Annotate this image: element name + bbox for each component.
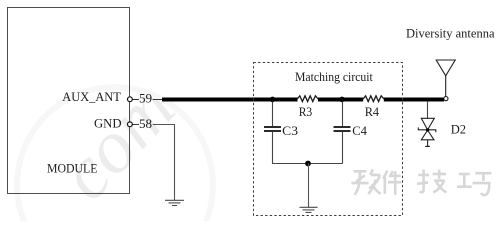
TVS diode D2 xyxy=(418,118,436,146)
wire bus to ground xyxy=(308,164,310,208)
ground symbol (matching circuit) xyxy=(300,207,318,212)
resistor R3 xyxy=(297,96,318,102)
node junction ground bus xyxy=(305,161,311,167)
antenna terminal circle xyxy=(444,97,448,101)
svg-text:59: 59 xyxy=(139,91,152,106)
node junction C3 tap xyxy=(270,97,276,103)
wire capacitor bottom bus xyxy=(272,163,343,165)
pin 59 circle xyxy=(127,97,132,102)
pin 58 lead (circle to number) xyxy=(132,124,139,126)
svg-text:AUX_ANT: AUX_ANT xyxy=(62,90,121,104)
capacitor C4 xyxy=(334,102,351,164)
svg-text:GND: GND xyxy=(94,117,122,131)
pin 59 lead (number to wire) xyxy=(153,99,163,101)
svg-text:Diversity antenna: Diversity antenna xyxy=(406,27,495,41)
wire AUX_ANT main segment 3 (thick) xyxy=(384,98,444,102)
char 件 xyxy=(383,171,401,195)
pin 58 circle xyxy=(127,122,132,127)
svg-text:C3: C3 xyxy=(282,124,298,138)
svg-text:C4: C4 xyxy=(352,124,367,138)
node junction C4 tap xyxy=(339,97,345,103)
char 巧 xyxy=(457,173,491,195)
wire GND pin to ground xyxy=(153,125,175,201)
pin 59 lead (circle to number) xyxy=(132,99,139,101)
svg-text:R3: R3 xyxy=(299,105,313,119)
watermark 软件技巧 xyxy=(351,169,491,195)
wire D2 lead xyxy=(427,101,429,118)
svg-text:D2: D2 xyxy=(451,123,466,137)
node D2 center xyxy=(426,128,429,131)
ground symbol (module GND) xyxy=(165,200,184,205)
svg-text:MODULE: MODULE xyxy=(47,162,98,176)
antenna symbol xyxy=(436,60,455,96)
resistor R4 xyxy=(363,96,384,102)
capacitor C3 xyxy=(264,102,281,164)
svg-text:R4: R4 xyxy=(365,105,379,119)
module body xyxy=(8,8,130,194)
char 技 xyxy=(417,170,446,193)
dashed box Matching circuit xyxy=(254,63,403,216)
svg-text:58: 58 xyxy=(139,116,152,131)
char 软 xyxy=(351,169,380,195)
svg-text:Matching circuit: Matching circuit xyxy=(295,70,373,84)
wire AUX_ANT main segment 2 (thick) xyxy=(318,98,363,102)
wire AUX_ANT main segment 1 (thick) xyxy=(162,98,298,102)
watermark stamp swirl xyxy=(17,66,213,240)
